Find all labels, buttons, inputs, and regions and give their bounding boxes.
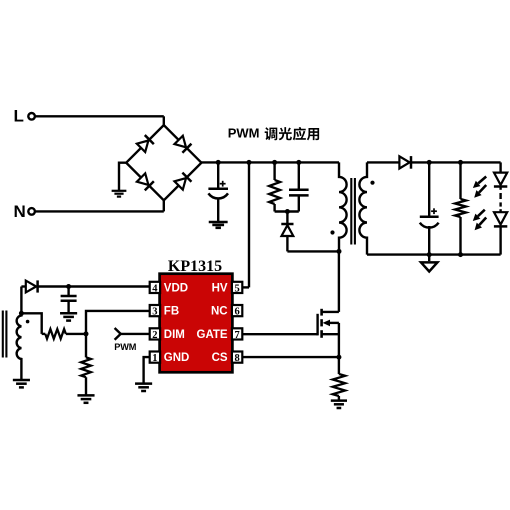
svg-text:3: 3: [152, 307, 157, 318]
svg-text:NC: NC: [211, 306, 228, 318]
svg-text:7: 7: [234, 330, 239, 341]
svg-text:6: 6: [234, 307, 239, 318]
svg-text:PWM: PWM: [228, 126, 260, 141]
svg-text:PWM: PWM: [114, 342, 136, 352]
svg-text:GND: GND: [164, 352, 190, 364]
svg-text:8: 8: [234, 353, 239, 364]
svg-text:VDD: VDD: [164, 283, 188, 295]
svg-text:HV: HV: [212, 283, 228, 295]
svg-text:FB: FB: [164, 306, 179, 318]
svg-text:1: 1: [152, 353, 157, 364]
svg-text:GATE: GATE: [197, 329, 228, 341]
svg-text:4: 4: [152, 283, 158, 294]
svg-text:N: N: [14, 202, 26, 221]
svg-text:CS: CS: [212, 352, 228, 364]
svg-text:DIM: DIM: [164, 329, 185, 341]
svg-text:5: 5: [234, 283, 239, 294]
svg-text:2: 2: [152, 330, 157, 341]
svg-text:L: L: [14, 106, 24, 125]
